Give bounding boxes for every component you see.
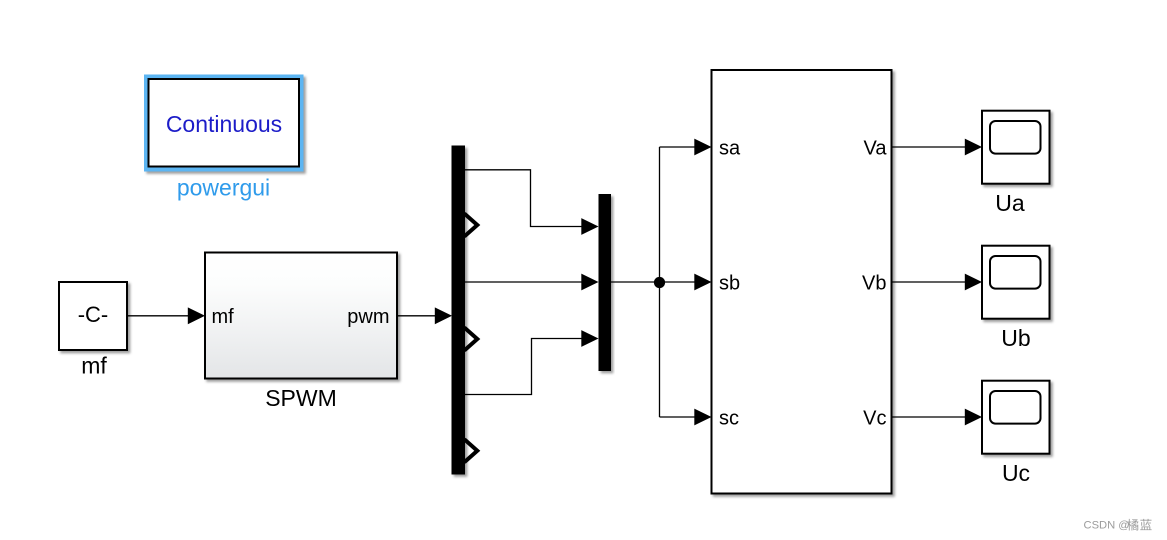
wire mux output to junction [611, 281, 660, 283]
constant block -C- [59, 282, 127, 350]
wire junction vertical branch [659, 147, 661, 417]
wire junction to port sb [660, 274, 712, 291]
wire demux out5 to mux in3 [465, 330, 599, 394]
svg-text:CSDN @: CSDN @ [1084, 520, 1130, 532]
wire Vc to scope Uc [892, 409, 983, 426]
label mf [81, 353, 107, 379]
scope Ua [982, 111, 1050, 184]
wire junction to port sc [660, 409, 712, 426]
svg-text:Va: Va [864, 138, 888, 160]
svg-text:Vc: Vc [863, 408, 886, 430]
scope Ub [982, 246, 1050, 319]
demux unconnected port 2 chevron [464, 214, 477, 237]
powergui block U_powergui [144, 75, 304, 172]
svg-text:SPWM: SPWM [265, 385, 337, 411]
label SPWM [265, 385, 337, 411]
scope Uc [982, 381, 1050, 454]
svg-text:Uc: Uc [1002, 460, 1030, 486]
svg-text:Vb: Vb [862, 273, 886, 295]
subsystem SPWM [205, 253, 397, 379]
svg-text:sa: sa [719, 138, 741, 160]
powergui label [177, 175, 270, 201]
svg-text:Ua: Ua [995, 190, 1025, 216]
subsystem U1 (inverter bridge) [712, 70, 892, 494]
wire SPWM to demux [397, 307, 452, 324]
wire -C- to SPWM [127, 307, 205, 324]
svg-text:sc: sc [719, 408, 739, 430]
svg-text:-C-: -C- [78, 302, 109, 327]
svg-text:Ub: Ub [1001, 325, 1030, 351]
svg-text:sb: sb [719, 273, 740, 295]
label Ub [1001, 325, 1030, 351]
label Uc [1002, 460, 1030, 486]
demux unconnected port 4 chevron [464, 328, 477, 351]
wire Vb to scope Ub [892, 274, 983, 291]
mux M1 [599, 194, 612, 371]
svg-text:pwm: pwm [347, 306, 389, 328]
wire demux out3 to mux in2 [465, 274, 599, 291]
demux D1 [452, 146, 466, 475]
svg-text:Continuous: Continuous [166, 111, 282, 137]
demux unconnected port 6 chevron [464, 439, 477, 462]
watermark CSDN [1084, 519, 1152, 532]
svg-text:mf: mf [81, 353, 107, 379]
wire Va to scope Ua [892, 139, 983, 156]
svg-text:powergui: powergui [177, 175, 270, 201]
label Ua [995, 190, 1025, 216]
wire demux out1 to mux in1 [465, 170, 599, 235]
wire junction to port sa [660, 139, 712, 156]
svg-text:mf: mf [212, 306, 235, 328]
junction node [654, 277, 665, 288]
